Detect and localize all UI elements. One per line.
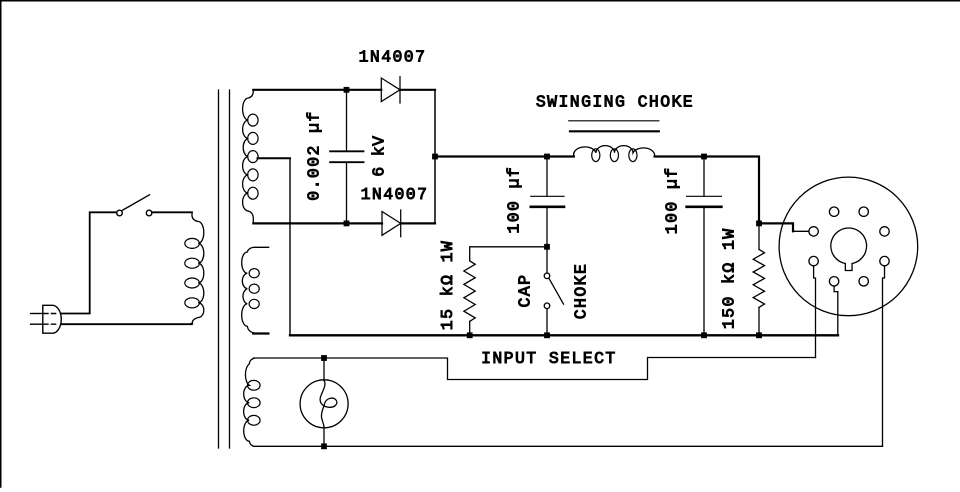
choke underline thin xyxy=(569,120,659,122)
choke L1 xyxy=(574,146,655,157)
wire plug top to switch xyxy=(61,212,116,313)
wire pin 5 to bottom xyxy=(883,266,885,446)
svg-text:1N4007: 1N4007 xyxy=(359,48,427,67)
node C2 bottom / switch S2 top xyxy=(544,244,550,250)
capacitor C3 leads xyxy=(703,157,705,197)
wire pin 7 to rail xyxy=(834,287,838,335)
wire switch to primary xyxy=(152,211,192,213)
wire B- rail xyxy=(290,334,838,336)
transformer T1 primary winding xyxy=(192,212,204,324)
socket center key xyxy=(831,228,867,270)
transformer T1 filament winding xyxy=(244,359,254,447)
page border top xyxy=(0,0,960,2)
socket pin 3 xyxy=(859,207,868,216)
wire bottom filament xyxy=(254,445,883,447)
wire R1 bottom lead xyxy=(469,321,471,335)
wire HV bottom lead xyxy=(253,222,382,224)
node bus at C3 xyxy=(701,154,707,160)
node rectifier top junction xyxy=(344,87,350,93)
node rail at C3 xyxy=(701,332,707,338)
wire node to socket pin 1 xyxy=(759,223,793,231)
svg-text:6 kV: 6 kV xyxy=(369,136,388,177)
lamp xyxy=(300,380,348,428)
transformer T1 HV secondary winding xyxy=(243,90,254,223)
choke underline thick xyxy=(570,130,659,132)
svg-text:150 kΩ 1W: 150 kΩ 1W xyxy=(720,227,739,329)
svg-text:CHOKE: CHOKE xyxy=(571,263,590,320)
wire D2 cathode to bus xyxy=(401,222,435,224)
node lamp bottom xyxy=(321,443,327,449)
switch S2 input select xyxy=(546,247,548,273)
resistor R1 15k xyxy=(464,261,475,321)
svg-text:CAP: CAP xyxy=(516,274,535,308)
svg-text:15 kΩ 1W: 15 kΩ 1W xyxy=(438,240,457,330)
page border left xyxy=(0,0,2,487)
resistor R2 150k xyxy=(758,223,760,249)
wire pin 8 to input select xyxy=(814,266,816,357)
wire plug bottom to primary xyxy=(61,323,191,326)
wire D1 cathode to bus xyxy=(400,89,435,91)
wire input select xyxy=(254,358,816,380)
socket pin 7 xyxy=(829,277,838,286)
svg-text:0.002 µf: 0.002 µf xyxy=(305,110,324,200)
socket pin 1 xyxy=(809,227,818,236)
node bus at C2 xyxy=(544,154,550,160)
capacitor C2 100uf plates xyxy=(531,195,564,197)
node rail at R2 xyxy=(756,332,762,338)
socket pin 8 xyxy=(809,256,818,265)
socket pin 4 xyxy=(880,227,889,236)
wire bus right segment xyxy=(655,157,759,224)
node bus at R2 top xyxy=(756,221,762,227)
capacitor C2 leads xyxy=(546,157,548,197)
socket pin 5 xyxy=(880,256,889,265)
lamp leads xyxy=(323,358,325,380)
transformer T1 middle secondary winding xyxy=(242,247,269,332)
node B+ bus at diodes xyxy=(432,154,438,160)
AC plug P1 xyxy=(31,305,62,333)
transformer T1 core xyxy=(218,90,220,448)
svg-text:100 µf: 100 µf xyxy=(505,166,524,234)
wire bus left segment xyxy=(435,155,574,157)
capacitor C3 100uf plates xyxy=(687,195,722,197)
octal socket outline xyxy=(779,177,918,316)
node rail at S2 xyxy=(544,332,550,338)
wire HV top lead xyxy=(253,89,381,91)
node rectifier bottom junction xyxy=(344,221,350,227)
capacitor C1 leads xyxy=(346,90,348,152)
svg-text:100 µf: 100 µf xyxy=(662,166,681,234)
socket pin 2 xyxy=(829,207,838,216)
socket pin 6 xyxy=(859,277,868,286)
lamp filament xyxy=(320,381,337,427)
wire HV center tap xyxy=(258,157,291,159)
diode D1 xyxy=(381,77,400,104)
svg-text:INPUT SELECT: INPUT SELECT xyxy=(481,349,617,368)
capacitor C1 0.002uf plates xyxy=(330,150,363,152)
node lamp top xyxy=(321,355,327,361)
svg-text:SWINGING CHOKE: SWINGING CHOKE xyxy=(536,92,694,111)
wire R1 top lead xyxy=(470,247,547,261)
switch S1 xyxy=(117,195,152,216)
svg-text:1N4007: 1N4007 xyxy=(361,185,429,204)
node rail at R1 xyxy=(467,332,473,338)
diode D2 xyxy=(382,210,401,237)
